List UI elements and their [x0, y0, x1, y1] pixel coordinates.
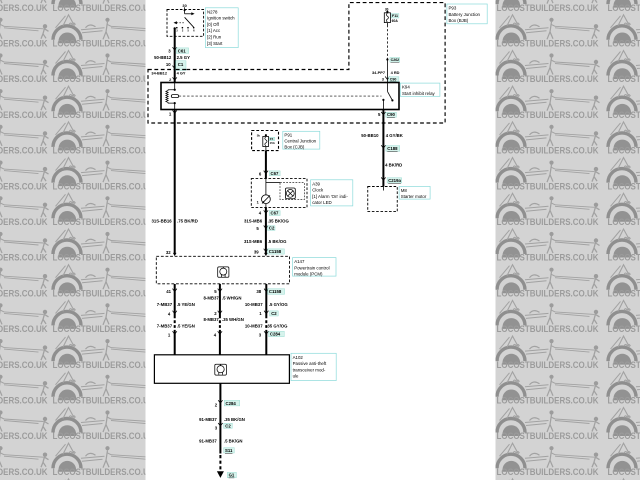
svg-text:C2: C2 — [269, 226, 275, 231]
svg-text:7-MB37: 7-MB37 — [157, 323, 173, 328]
svg-text:C188: C188 — [387, 146, 398, 151]
svg-text:ule: ule — [293, 374, 299, 379]
svg-text:.5 BK/OG: .5 BK/OG — [268, 239, 288, 244]
svg-text:P91: P91 — [284, 133, 292, 138]
svg-text:[3] Start: [3] Start — [207, 41, 223, 46]
svg-text:39: 39 — [254, 250, 259, 255]
svg-text:F11: F11 — [392, 14, 398, 18]
svg-text:A102: A102 — [293, 355, 304, 360]
svg-text:C67: C67 — [271, 171, 279, 176]
svg-text:4 BK/RD: 4 BK/RD — [385, 163, 402, 168]
svg-text:S11: S11 — [225, 448, 233, 453]
svg-text:C1158: C1158 — [269, 249, 282, 254]
svg-text:31S-BB16: 31S-BB16 — [152, 219, 173, 224]
svg-text:7-MB37: 7-MB37 — [157, 302, 173, 307]
svg-text:M8: M8 — [401, 188, 408, 193]
svg-text:.35 BK/OG: .35 BK/OG — [268, 218, 290, 223]
svg-text:C90: C90 — [390, 78, 397, 82]
svg-text:A39: A39 — [312, 181, 320, 186]
svg-text:C1: C1 — [178, 62, 184, 67]
svg-text:.35 WH/GN: .35 WH/GN — [222, 317, 244, 322]
svg-text:4 GY: 4 GY — [177, 70, 186, 75]
svg-text:31S-MB6: 31S-MB6 — [244, 218, 263, 223]
svg-text:C90: C90 — [387, 112, 395, 117]
svg-text:C219a: C219a — [388, 178, 401, 183]
svg-text:Passive anti-theft: Passive anti-theft — [293, 361, 327, 366]
svg-text:.5 GY/OG: .5 GY/OG — [269, 302, 289, 307]
svg-text:C284: C284 — [226, 401, 237, 406]
svg-text:34-PP7: 34-PP7 — [372, 70, 385, 75]
svg-text:K94: K94 — [402, 85, 410, 90]
svg-text:32: 32 — [166, 250, 171, 255]
svg-text:Powertrain control: Powertrain control — [294, 265, 329, 270]
svg-text:10: 10 — [166, 62, 171, 67]
svg-text:10-MB37: 10-MB37 — [245, 323, 263, 328]
svg-text:cator LED: cator LED — [312, 200, 332, 205]
svg-text:31S-MB6: 31S-MB6 — [244, 239, 263, 244]
svg-text:2.5 GY: 2.5 GY — [177, 55, 191, 60]
svg-text:transceiver mod-: transceiver mod- — [293, 367, 326, 372]
svg-text:Clock: Clock — [312, 188, 324, 193]
svg-text:8-MB37: 8-MB37 — [204, 317, 220, 322]
svg-text:91-MB37: 91-MB37 — [199, 439, 217, 444]
svg-text:Central Junction: Central Junction — [284, 139, 316, 144]
svg-text:C1158: C1158 — [269, 289, 282, 294]
svg-text:4 RD: 4 RD — [391, 70, 400, 75]
svg-text:50-BB12: 50-BB12 — [154, 55, 172, 60]
svg-text:Battery Junction: Battery Junction — [449, 12, 481, 17]
svg-text:A147: A147 — [294, 259, 305, 264]
svg-text:41: 41 — [166, 289, 171, 294]
svg-text:.35 BK/GN: .35 BK/GN — [224, 417, 245, 422]
svg-text:[1] Alarm 'On' indi-: [1] Alarm 'On' indi- — [312, 194, 348, 199]
svg-text:34-BB12: 34-BB12 — [151, 70, 167, 75]
svg-text:Ignition switch: Ignition switch — [207, 16, 235, 21]
svg-text:60A: 60A — [392, 19, 399, 23]
svg-text:C284: C284 — [270, 332, 281, 337]
svg-text:C262: C262 — [391, 58, 400, 62]
svg-text:.75 BK/RD: .75 BK/RD — [177, 219, 198, 224]
svg-text:.5 BK/GN: .5 BK/GN — [224, 439, 243, 444]
svg-text:[1] Acc: [1] Acc — [207, 28, 221, 33]
svg-text:15A: 15A — [270, 141, 276, 145]
svg-text:[2] Run: [2] Run — [207, 35, 222, 40]
svg-text:38: 38 — [256, 289, 261, 294]
svg-text:.35 GY/OG: .35 GY/OG — [266, 323, 288, 328]
svg-text:50-BB10: 50-BB10 — [361, 133, 379, 138]
svg-text:C61: C61 — [178, 48, 186, 53]
svg-text:.5 WH/GN: .5 WH/GN — [222, 295, 242, 300]
svg-text:Box (BJB): Box (BJB) — [449, 18, 469, 23]
svg-text:10-MB37: 10-MB37 — [245, 302, 263, 307]
svg-text:C67: C67 — [271, 211, 279, 216]
svg-text:Starter motor: Starter motor — [401, 194, 427, 199]
svg-text:Box (CJB): Box (CJB) — [284, 145, 305, 150]
svg-text:91-MB37: 91-MB37 — [199, 417, 217, 422]
svg-text:4 GY/BK: 4 GY/BK — [386, 133, 404, 138]
svg-text:8-MB37: 8-MB37 — [204, 295, 220, 300]
svg-text:5b: 5b — [257, 133, 261, 137]
svg-text:N278: N278 — [207, 9, 218, 14]
svg-text:G1: G1 — [229, 473, 235, 478]
svg-text:30: 30 — [182, 3, 186, 8]
svg-text:module (PCM): module (PCM) — [294, 272, 323, 277]
svg-text:Start inhibit relay: Start inhibit relay — [402, 91, 436, 96]
svg-text:C2: C2 — [271, 311, 277, 316]
svg-text:P93: P93 — [449, 6, 457, 11]
svg-text:C2: C2 — [225, 423, 231, 428]
svg-text:[0] Off: [0] Off — [207, 22, 220, 27]
svg-text:.5 YE/GN: .5 YE/GN — [177, 302, 195, 307]
svg-text:.5 YE/GN: .5 YE/GN — [177, 323, 195, 328]
svg-text:30: 30 — [385, 7, 389, 11]
